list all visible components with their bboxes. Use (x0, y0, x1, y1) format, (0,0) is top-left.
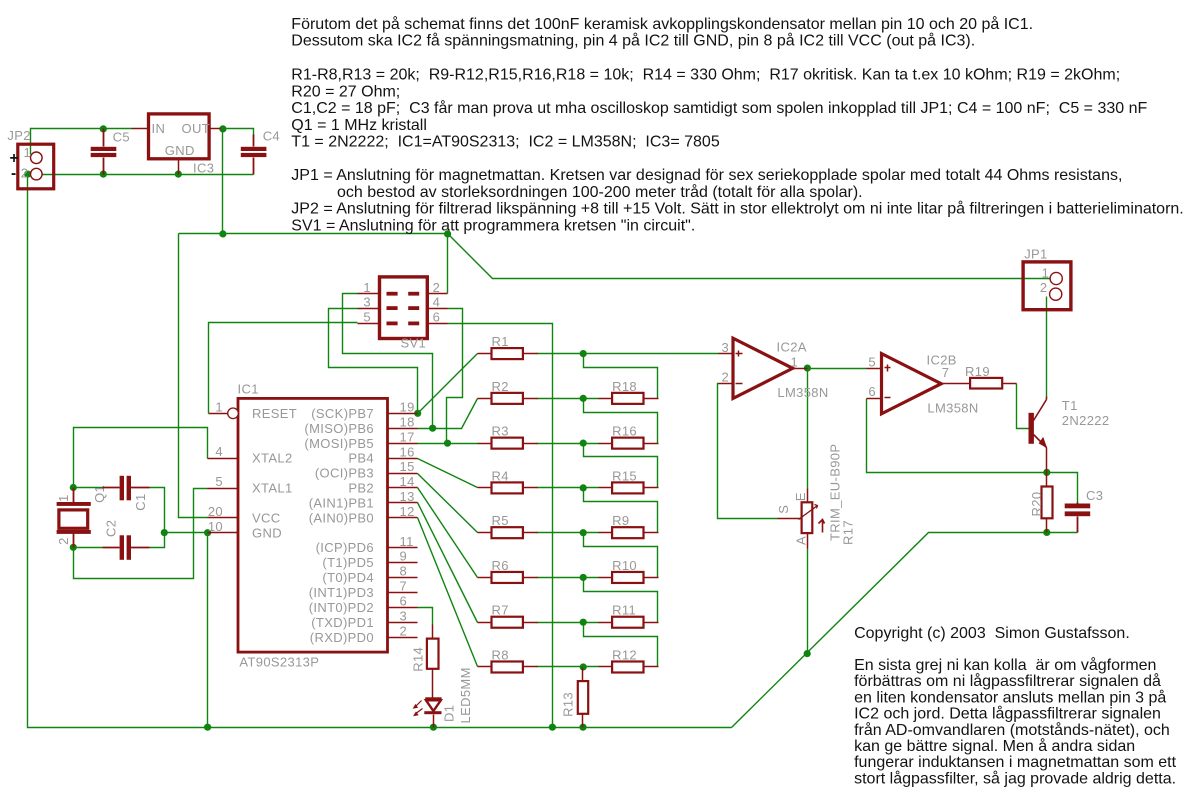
wire net PB0 diagonal to R8 (418, 518, 478, 667)
capacitor C3 (1065, 503, 1091, 533)
resistor R12 (599, 647, 659, 672)
svg-text:1: 1 (24, 145, 32, 160)
ic IC1 pin name (OCI)PB3 (315, 466, 374, 481)
svg-text:R8: R8 (492, 647, 509, 662)
svg-text:R2: R2 (492, 379, 509, 394)
wire net GND drop from IC1 pin10 column (207, 533, 209, 728)
label IC3 IN (152, 121, 166, 136)
wire net JP1 pin2 to T1 collector (1046, 297, 1048, 397)
resistor R14 (427, 625, 439, 698)
ic IC1 pin name (MOSI)PB5 (304, 436, 374, 451)
svg-text:LM358N: LM358N (927, 401, 978, 416)
ic IC1 pin 19 stub (388, 413, 418, 415)
svg-text:1: 1 (791, 355, 799, 370)
junction C1-C2 join (161, 529, 168, 536)
ic IC1 pin 8 stub (388, 577, 418, 579)
svg-text:18: 18 (400, 414, 415, 429)
label IC2A (777, 339, 807, 354)
ic IC2A pin 2 number (722, 369, 730, 384)
svg-text:(T0)PD4: (T0)PD4 (322, 570, 374, 585)
svg-text:1: 1 (215, 399, 223, 414)
trimmer R17 (778, 489, 825, 549)
ic IC1 pin name XTAL1 (252, 481, 293, 496)
svg-text:(AIN1)PB1: (AIN1)PB1 (309, 495, 374, 510)
junction VCC at IC3 OUT (219, 125, 226, 132)
wire net XTAL2 (IC1 pin4 - Q1 pin1 - C1) (74, 428, 208, 488)
ic IC1 pin 4 number (215, 444, 223, 459)
label IC3 OUT (182, 121, 211, 136)
label Q1 pin 2 (56, 537, 71, 545)
wire net GND C3 bottom link (1047, 532, 1078, 534)
ic IC1 pin 17 stub (388, 443, 418, 445)
svg-text:stort lågpassfilter, så jag pr: stort lågpassfilter, så jag provade aldr… (854, 769, 1176, 787)
svg-text:R12: R12 (612, 647, 637, 662)
svg-text:(AIN0)PB0: (AIN0)PB0 (309, 510, 374, 525)
svg-text:R13: R13 (561, 692, 576, 717)
wire net MOSI (SV1 pin4 - IC1 pin17 - R3) (418, 309, 478, 444)
junction at T1 emitter/R20 top (1043, 469, 1050, 476)
ic IC1 pin 19 number (400, 400, 415, 415)
resistor R19 (970, 378, 1016, 389)
junction GND at R17 A on diagonal (804, 650, 811, 657)
svg-text:D1: D1 (441, 705, 456, 722)
svg-text:AT90S2313P: AT90S2313P (239, 655, 319, 670)
ic IC1 pin 1 number (215, 399, 223, 414)
wire net PD2 to R14 (418, 608, 433, 625)
op-amp IC2B (867, 354, 971, 414)
svg-text:R1: R1 (492, 334, 509, 349)
junction GND at JP2 pin2 (24, 171, 31, 178)
svg-text:R18: R18 (612, 379, 637, 394)
svg-text:en liten kondensator ansluts m: en liten kondensator ansluts mellan pin … (854, 688, 1166, 706)
ic IC1 pin 9 stub (388, 562, 418, 564)
svg-text:LED5MM: LED5MM (458, 667, 473, 723)
wire net C1/C2 to IC1 GND pin10 (150, 488, 208, 548)
connector SV1 pin dashes and stubs (358, 292, 448, 326)
ic IC1 pin 6 number (400, 594, 408, 609)
svg-text:14: 14 (400, 474, 415, 489)
svg-text:3: 3 (722, 340, 730, 355)
ic IC2B pin 7 number (942, 365, 950, 380)
ic IC1 pin name (MISO)PB6 (304, 421, 374, 436)
svg-text:E: E (793, 492, 808, 501)
svg-text:R15: R15 (612, 468, 637, 483)
svg-text:2: 2 (56, 537, 71, 545)
junction GND at IC3 GND (175, 171, 182, 178)
label T1 value 2N2222 (1062, 413, 1110, 428)
svg-text:2: 2 (722, 369, 730, 384)
svg-text:3: 3 (363, 294, 371, 309)
ic IC1 pin 14 stub (388, 487, 418, 489)
ic IC1 pin name (INT1)PD3 (309, 585, 374, 600)
svg-text:C1,C2 = 18 pF; C3 får man pro: C1,C2 = 18 pF; C3 får man prova ut mha o… (291, 99, 1147, 117)
svg-text:6: 6 (868, 384, 876, 399)
junction GND at R20 bottom (1043, 529, 1050, 536)
ic IC1 pin name (ICP)PD6 (316, 540, 374, 555)
resistor R4 (478, 468, 538, 493)
svg-text:1: 1 (363, 280, 371, 295)
capacitor C5 (91, 129, 117, 175)
svg-text:R20 = 27 Ohm;: R20 = 27 Ohm; (291, 83, 400, 100)
wire net PB1 diagonal to R7 (418, 503, 478, 623)
resistor R13 (578, 668, 588, 728)
connector JP2 pin 2 circle (31, 168, 43, 180)
svg-text:(ICP)PD6: (ICP)PD6 (316, 540, 374, 555)
svg-text:R14: R14 (410, 647, 425, 672)
ic IC1 pin 15 number (400, 459, 415, 474)
resistor R1 (478, 334, 538, 359)
svg-text:C1: C1 (133, 493, 148, 510)
svg-text:6: 6 (400, 594, 408, 609)
label IC2A value LM358N (777, 385, 828, 400)
ic IC1 pin 12 stub (388, 517, 418, 519)
connector SV1 pin 2 number (433, 280, 441, 295)
ic IC1 pin 1 RESET stub (209, 408, 239, 419)
svg-text:IC2 och jord. Detta lågpassfil: IC2 och jord. Detta lågpassfiltrerar sig… (854, 705, 1161, 723)
svg-text:17: 17 (400, 429, 415, 444)
svg-text:4: 4 (433, 294, 441, 309)
wire net IC2A pin2 to R17 S (718, 384, 778, 519)
label JP2 pin1 number (24, 145, 32, 160)
wire net GND bottom diagonal to R20 bottom (732, 533, 1047, 728)
ic IC1 pin 6 stub (388, 607, 418, 609)
label SV1 (401, 336, 427, 351)
ic IC1 box (238, 398, 388, 652)
connector JP1 box (1023, 262, 1071, 310)
svg-text:C3: C3 (1086, 488, 1103, 503)
junction GND at C5 bottom (100, 171, 107, 178)
ic IC1 pin name PB4 (348, 451, 374, 466)
junction GND bottom at x552 (549, 724, 556, 731)
label C4 (263, 129, 280, 144)
connector SV1 box (380, 277, 428, 339)
wire net PB3 diagonal to R5 (418, 474, 478, 533)
svg-text:R5: R5 (492, 513, 509, 528)
svg-text:(RXD)PD0: (RXD)PD0 (310, 630, 374, 645)
label R20 (1029, 492, 1044, 517)
ic IC1 pin 5 number (215, 474, 223, 489)
svg-text:A: A (794, 536, 809, 545)
label R17 pin S (776, 505, 791, 514)
junction VIN at C5 top (100, 125, 107, 132)
label D1 value LED5MM (458, 667, 473, 723)
junction at Q1 pin1 (70, 484, 77, 491)
svg-text:fungerar induktansen i magnetm: fungerar induktansen i magnetmattan som … (854, 754, 1177, 771)
label JP2 plus (10, 150, 19, 167)
label R17 pin E (793, 492, 808, 501)
label JP2 (7, 128, 30, 143)
label IC1 value AT90S2313P (239, 655, 319, 670)
wire net VIN (JP2 pin1 to C5 top to IC3 IN) (31, 129, 132, 155)
svg-text:9: 9 (400, 549, 408, 564)
svg-text:2: 2 (1040, 280, 1048, 295)
ic IC1 pin 18 number (400, 414, 415, 429)
wire net GND left drop and bottom bus (28, 175, 732, 728)
junction GND bottom at x207 (204, 724, 211, 731)
ic IC1 pin 7 stub (388, 592, 418, 594)
transistor T1 (1029, 397, 1048, 473)
label R19 (965, 364, 990, 379)
capacitor C4 (241, 135, 267, 175)
resistor R9 (599, 513, 659, 538)
connector JP1 pin 2 circle (1050, 288, 1062, 300)
svg-text:PB2: PB2 (348, 481, 374, 496)
svg-text:R17: R17 (841, 520, 856, 545)
svg-text:R19: R19 (965, 364, 990, 379)
svg-text:och bestod av storleksordninge: och bestod av storleksordningen 100-200 … (337, 183, 863, 201)
label JP1 (1024, 246, 1047, 261)
ic IC1 pin 3 number (400, 608, 408, 623)
wire net R-2R ladder rows and jogs (537, 354, 719, 667)
svg-text:12: 12 (400, 504, 415, 519)
connector SV1 pin 6 number (433, 310, 441, 325)
svg-text:10: 10 (208, 519, 223, 534)
ic IC1 pin 8 number (400, 564, 408, 579)
svg-text:JP2: JP2 (7, 128, 30, 143)
svg-text:JP2 = Anslutning för filtrerad: JP2 = Anslutning för filtrerad likspänni… (291, 200, 1183, 218)
ic IC1 pin name (T1)PD5 (322, 555, 374, 570)
resistor R18 (599, 379, 659, 404)
label Q1 (92, 485, 107, 503)
label JP2 minus (11, 165, 17, 182)
svg-text:PB4: PB4 (348, 451, 374, 466)
label JP2 pin2 number (21, 166, 29, 181)
svg-text:GND: GND (165, 143, 195, 158)
ic IC1 pin 18 stub (388, 428, 418, 430)
regulator IC3 pin OUT stub (210, 128, 221, 130)
resistor R6 (478, 558, 538, 583)
svg-text:R1-R8,R13 = 20k; R9-R12,R15,R: R1-R8,R13 = 20k; R9-R12,R15,R16,R18 = 10… (291, 67, 1120, 84)
resistor R16 (599, 424, 659, 449)
svg-text:XTAL2: XTAL2 (252, 451, 293, 466)
ic IC1 pin name (AIN1)PB1 (309, 495, 374, 510)
ic IC1 pin 13 number (400, 489, 415, 504)
ic IC1 pin 17 number (400, 429, 415, 444)
ic IC1 pin 5 stub (208, 488, 239, 490)
svg-text:VCC: VCC (252, 510, 281, 525)
resistor R20 (1042, 473, 1053, 533)
ic IC1 pin 16 number (400, 444, 415, 459)
label C5 (113, 129, 130, 144)
svg-text:S: S (776, 505, 791, 514)
connector SV1 pin 4 number (433, 294, 441, 309)
wire net RESET (SV1 pin5 - IC1 pin1) (209, 323, 358, 414)
svg-text:(OCI)PB3: (OCI)PB3 (315, 466, 374, 481)
ic IC1 pin 7 number (400, 579, 408, 594)
junction at IC2A output (804, 365, 811, 372)
label IC3 (193, 161, 214, 176)
svg-text:7: 7 (400, 579, 408, 594)
svg-text:(T1)PD5: (T1)PD5 (322, 555, 374, 570)
svg-text:6: 6 (433, 310, 441, 325)
connector SV1 pin 1 number (363, 280, 371, 295)
svg-text:R3: R3 (492, 424, 509, 439)
ic IC1 pin name (SCK)PB7 (311, 406, 374, 421)
ic IC2B pin 5 number (868, 354, 876, 369)
ic IC1 pin name RESET (252, 406, 297, 421)
svg-text:5: 5 (868, 354, 876, 369)
svg-text:T1: T1 (1062, 398, 1078, 413)
resistor R5 (478, 513, 538, 538)
svg-text:SV1 = Anslutning för att progr: SV1 = Anslutning för att programmera kre… (291, 217, 695, 234)
svg-text:R11: R11 (612, 603, 636, 618)
svg-text:13: 13 (400, 489, 415, 504)
svg-text:SV1: SV1 (401, 336, 427, 351)
label Q1 pin 1 (56, 494, 71, 502)
ic IC1 pin 10 stub (208, 532, 239, 534)
svg-text:JP1: JP1 (1024, 246, 1047, 261)
svg-text:R7: R7 (492, 603, 509, 618)
label D1 (441, 705, 456, 722)
resistor R15 (599, 468, 659, 493)
svg-text:2: 2 (400, 623, 408, 638)
ic IC1 pin name XTAL2 (252, 451, 293, 466)
ic IC1 pin 11 stub (388, 547, 418, 549)
ic IC1 pin 4 stub (208, 458, 239, 460)
svg-text:8: 8 (400, 564, 408, 579)
resistor R10 (599, 558, 659, 583)
junction at Q1 pin2 (70, 544, 77, 551)
resistor R11 (599, 603, 659, 628)
svg-text:5: 5 (363, 310, 371, 325)
regulator IC3 pin GND stub (178, 159, 180, 175)
resistor R3 (478, 424, 538, 449)
crystal Q1 (57, 488, 91, 548)
svg-text:förbättras om ni lågpassfiltre: förbättras om ni lågpassfiltrerar signal… (854, 672, 1161, 690)
svg-text:R6: R6 (492, 558, 509, 573)
resistor R7 (478, 603, 538, 628)
svg-text:C4: C4 (263, 129, 280, 144)
ic IC1 pin 2 stub (388, 637, 418, 639)
connector JP2 pin 1 circle (31, 152, 43, 164)
svg-text:19: 19 (400, 400, 415, 415)
wire net SCK (SV1 pin3 - IC1 pin19 - R1) (329, 309, 478, 414)
wire net PB4 diagonal to R4 (418, 459, 478, 488)
label R17 value TRIM_EU-B90P (827, 444, 842, 541)
svg-text:LM358N: LM358N (777, 385, 828, 400)
wire net GND from SV1 pin6 (448, 324, 553, 728)
svg-text:C2: C2 (103, 520, 118, 537)
connector SV1 pin 5 number (363, 310, 371, 325)
ic IC1 pin name (AIN0)PB0 (309, 510, 374, 525)
label R17 pin A (794, 536, 809, 545)
label R14 (410, 647, 425, 672)
svg-text:-: - (11, 165, 17, 182)
svg-text:kan ge bättre signal. Men å an: kan ge bättre signal. Men å andra sidan (854, 737, 1135, 755)
svg-text:(MISO)PB6: (MISO)PB6 (304, 421, 374, 436)
ic IC1 pin name GND (252, 525, 282, 540)
svg-text:GND: GND (252, 525, 282, 540)
junction ladder row dots (580, 350, 587, 671)
svg-text:(SCK)PB7: (SCK)PB7 (311, 406, 374, 421)
label JP1 pin2 number (1040, 280, 1048, 295)
resistor R8 (478, 647, 538, 672)
svg-text:RESET: RESET (252, 406, 297, 421)
svg-text:16: 16 (400, 444, 415, 459)
ic IC1 pin 16 stub (388, 458, 418, 460)
junction VCC rail over OUT column (219, 230, 226, 237)
resistor R2 (478, 379, 538, 404)
label R17 (841, 520, 856, 545)
ic IC1 pin name (RXD)PD0 (310, 630, 374, 645)
svg-text:4: 4 (215, 444, 223, 459)
svg-text:1: 1 (56, 494, 71, 502)
svg-text:R16: R16 (612, 424, 637, 439)
svg-text:3: 3 (400, 608, 408, 623)
ic IC1 pin 11 number (400, 534, 414, 549)
label C2 (103, 520, 118, 537)
junction at IC1 pin19 (414, 410, 421, 417)
svg-text:(TXD)PD1: (TXD)PD1 (311, 615, 374, 630)
svg-text:R20: R20 (1029, 492, 1044, 517)
wire net GND rail (JP2 pin2 - C5 - IC3 GND - C4) (28, 174, 254, 176)
svg-text:Q1 = 1 MHz kristall: Q1 = 1 MHz kristall (291, 117, 427, 134)
svg-text:(INT1)PD3: (INT1)PD3 (309, 585, 374, 600)
junction VCC at SV1 pin2 column (444, 230, 451, 237)
svg-text:T1 = 2N2222; IC1=AT90S2313;: T1 = 2N2222; IC1=AT90S2313; IC2 = LM358N… (291, 134, 720, 151)
ic IC1 pin name PB2 (348, 481, 374, 496)
wire net XTAL1 (IC1 pin5 - Q1 pin2 - C2) (74, 489, 208, 579)
svg-text:R4: R4 (492, 468, 509, 483)
junction at IC1 pin10 (204, 529, 211, 536)
svg-text:2: 2 (21, 166, 29, 181)
label R13 (561, 692, 576, 717)
svg-text:R9: R9 (612, 513, 629, 528)
ic IC1 pin 13 stub (388, 502, 418, 504)
ic IC2A pin 3 number (722, 340, 730, 355)
ic IC1 pin 14 number (400, 474, 415, 489)
ic IC1 pin 9 number (400, 549, 408, 564)
svg-text:20: 20 (208, 504, 223, 519)
svg-text:R10: R10 (612, 558, 637, 573)
wire net PB2 diagonal to R6 (418, 488, 478, 578)
capacitor C1 (103, 476, 150, 501)
svg-text:(MOSI)PB5: (MOSI)PB5 (304, 436, 374, 451)
ic IC1 pin name (T0)PD4 (322, 570, 374, 585)
label C1 (133, 493, 148, 510)
svg-text:IC2A: IC2A (777, 339, 807, 354)
label T1 (1062, 398, 1078, 413)
svg-text:Förutom det på schemat finns d: Förutom det på schemat finns det 100nF k… (291, 15, 1033, 33)
junction at IC1 pin17 (444, 440, 451, 447)
svg-text:5: 5 (215, 474, 223, 489)
svg-text:1: 1 (1042, 265, 1050, 280)
ic IC2A pin 1 number (791, 355, 799, 370)
ic IC1 pin 3 stub (388, 622, 418, 624)
svg-text:2N2222: 2N2222 (1062, 413, 1110, 428)
wire net IC2A output to IC2B pin5 and R17 E (808, 369, 867, 489)
svg-text:En sista grej ni kan kolla är: En sista grej ni kan kolla är om vågform… (854, 656, 1156, 674)
connector SV1 pin 3 number (363, 294, 371, 309)
ic IC1 pin name (TXD)PD1 (311, 615, 374, 630)
ic IC1 pin 10 number (208, 519, 223, 534)
connector JP1 pin 1 circle (1050, 272, 1062, 284)
ic IC1 pin 20 number (208, 504, 223, 519)
ic IC1 pin 20 stub (208, 517, 239, 519)
svg-text:2: 2 (433, 280, 441, 295)
ic IC1 pin 15 stub (388, 473, 418, 475)
wire net IC2B pin6 feedback (867, 399, 1078, 503)
junction GND bottom at D1 (430, 724, 437, 731)
junction GND bottom at R13 (579, 724, 586, 731)
capacitor C2 (103, 535, 150, 560)
ic IC2B pin 6 number (868, 384, 876, 399)
wire net R19 to T1 base (1017, 384, 1029, 429)
svg-text:IC1: IC1 (238, 382, 259, 397)
label C3 (1086, 488, 1103, 503)
svg-text:XTAL1: XTAL1 (252, 481, 293, 496)
bottom annotation text block (854, 625, 1177, 788)
